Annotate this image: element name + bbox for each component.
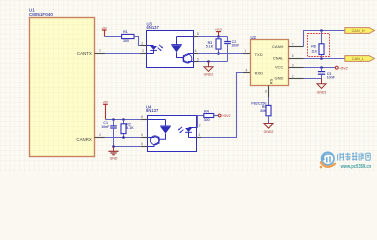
svg-text:3: 3: [292, 63, 294, 67]
U4 internal LED: [185, 128, 196, 138]
dashed termination box: [308, 34, 330, 57]
resistor R4 300: [204, 110, 214, 122]
svg-text:TXD: TXD: [255, 52, 263, 57]
resistor R2 5.1K: [121, 120, 134, 138]
junction GND2 node: [207, 60, 210, 63]
junction R3 bottom: [217, 52, 220, 55]
ground GND (bottom left): [108, 147, 118, 161]
svg-text:8: 8: [197, 32, 199, 36]
resistor R5 30K: [251, 97, 271, 124]
wire +5V to R1: [105, 36, 122, 38]
svg-text:U2: U2: [251, 35, 257, 40]
svg-text:10nF: 10nF: [231, 44, 240, 48]
wire CANH to port: [304, 31, 345, 47]
U3 pin 2: [141, 41, 147, 45]
wire CANTX: [105, 53, 142, 55]
svg-text:6: 6: [141, 133, 143, 137]
watermark logo: [320, 152, 335, 168]
svg-text:GND2: GND2: [204, 72, 214, 76]
svg-text:5.1K: 5.1K: [126, 126, 134, 130]
wire +5V rail to U4 pin8: [106, 119, 142, 121]
U2 pin 4 RXD: [243, 68, 251, 72]
svg-text:2: 2: [292, 74, 294, 78]
junction R2 bottom: [122, 136, 125, 139]
U3 internal LED: [147, 46, 158, 54]
wire U4 pin5 gnd: [114, 146, 142, 148]
svg-text:3: 3: [198, 133, 200, 137]
wire U4 pin2 riser to R4: [198, 116, 204, 128]
svg-text:3: 3: [142, 49, 144, 53]
MCU U1 C8051F040: [29, 8, 95, 157]
svg-text:6N137: 6N137: [147, 25, 160, 30]
U4 pin 2: [197, 123, 201, 127]
resistor R1 300: [122, 30, 134, 43]
U4 internal photodiode: [148, 120, 171, 140]
pin 1 CANTX of U1: [95, 49, 106, 54]
svg-text:RXD: RXD: [255, 71, 264, 76]
resistor R6 110: [311, 31, 324, 59]
U4 pin 5: [141, 142, 148, 146]
svg-text:10nF: 10nF: [101, 125, 110, 129]
U4 internal transistor: [148, 136, 160, 147]
svg-text:300: 300: [123, 39, 129, 43]
ground GND2 (U3): [204, 62, 214, 77]
svg-text:C8051F040: C8051F040: [29, 12, 53, 17]
svg-text:5.1K: 5.1K: [206, 45, 214, 49]
wire VCC to +5V2: [304, 67, 336, 69]
svg-text:2: 2: [141, 41, 143, 45]
capacitor C3 10nF: [318, 68, 336, 80]
svg-text:GND: GND: [110, 157, 118, 161]
U2 pin 2 GND: [289, 74, 304, 78]
wire U3 pin8 to +5V2 rail: [198, 36, 228, 38]
svg-text:GND2: GND2: [317, 90, 327, 94]
junction R3 top: [217, 35, 220, 38]
U2 pin 7 CANH: [289, 42, 304, 46]
svg-text:+5V: +5V: [101, 26, 108, 30]
svg-text:GND2: GND2: [264, 130, 274, 134]
svg-text:1: 1: [99, 49, 101, 53]
svg-text:CANH: CANH: [272, 44, 283, 49]
junction CANL/R6: [320, 57, 323, 60]
U4 pin 8: [141, 115, 148, 119]
capacitor C2 10nF: [224, 37, 240, 62]
svg-text:CAN_L: CAN_L: [352, 57, 364, 61]
svg-text:10nF: 10nF: [327, 76, 336, 80]
svg-text:110: 110: [311, 49, 317, 53]
watermark text 河东软件园: [338, 153, 371, 161]
junction C1 top: [112, 118, 115, 121]
svg-text:RS: RS: [268, 78, 273, 84]
svg-text:CANTX: CANTX: [77, 51, 92, 56]
U2 pin 3 VCC: [289, 63, 304, 67]
junction R2 top: [122, 118, 125, 121]
power +5V (bottom): [103, 100, 110, 119]
U2 pin 6 CANL: [289, 54, 304, 58]
svg-text:+5V2: +5V2: [222, 114, 231, 118]
power +5V2 (circle, VCC): [335, 66, 347, 70]
wire R1 to U3 pin2: [134, 37, 141, 46]
U2 pin 1 TXD: [243, 49, 251, 53]
svg-text:2: 2: [199, 123, 201, 127]
power +5V2 (bar, U3): [215, 27, 223, 36]
svg-text:8: 8: [141, 115, 143, 119]
ground GND2 (R5): [264, 124, 274, 135]
svg-text:CAN_H: CAN_H: [352, 29, 365, 33]
svg-text:R6: R6: [311, 45, 316, 49]
wire GND pin to C3: [304, 78, 322, 80]
svg-text:2: 2: [99, 133, 101, 137]
U4 pin 6: [141, 133, 148, 137]
ground GND2 (C3): [317, 79, 327, 95]
wire CANL to port: [304, 58, 345, 60]
resistor R3 5.1K: [206, 37, 221, 54]
svg-text:CANRX: CANRX: [76, 137, 91, 142]
opto U3 6N137: [147, 21, 194, 67]
U2 pin 8 RS: [265, 86, 268, 98]
U3 internal transistor: [183, 54, 194, 64]
U4 pin 3: [197, 133, 202, 137]
svg-text:GND: GND: [275, 75, 284, 80]
svg-text:5: 5: [197, 57, 199, 61]
svg-text:7: 7: [292, 42, 294, 46]
svg-text:5: 5: [141, 142, 143, 146]
U3 pin 6: [194, 49, 199, 53]
wire RXD riser: [201, 73, 243, 138]
U3 LED emission arrows: [158, 45, 163, 51]
CAN transceiver U2 P82C250: [251, 35, 289, 86]
svg-text:30K: 30K: [260, 109, 267, 113]
U4 LED emission arrows: [178, 127, 183, 133]
power +5V2 (circle, R4): [218, 114, 230, 118]
junction CANH/R6: [320, 29, 323, 32]
svg-text:+5V2: +5V2: [215, 27, 223, 31]
U3 internal photodiode: [171, 37, 193, 58]
junction VCC/C3: [320, 66, 323, 69]
wire R4 to +5V2 circle: [214, 115, 219, 117]
opto U4 6N137: [146, 105, 197, 152]
wire U3 pin5 to GND2: [198, 61, 228, 63]
svg-text:8: 8: [265, 90, 267, 94]
svg-text:6: 6: [195, 49, 197, 53]
svg-text:4: 4: [246, 68, 248, 72]
svg-text:6N137: 6N137: [146, 108, 159, 113]
svg-text:CNAL: CNAL: [273, 55, 284, 60]
svg-text:VCC: VCC: [275, 65, 284, 70]
U3 pin 8: [194, 32, 200, 36]
svg-text:R1: R1: [123, 30, 128, 34]
svg-text:+5V: +5V: [103, 100, 110, 104]
svg-text:+5V2: +5V2: [339, 66, 348, 70]
port CAN_H: [345, 28, 375, 34]
wire U3 pin6 to TXD: [198, 53, 243, 55]
wire CANRX: [105, 137, 142, 139]
port CAN_L: [345, 56, 375, 62]
U3 pin 3: [141, 49, 147, 53]
svg-text:6: 6: [292, 54, 294, 58]
svg-text:1: 1: [244, 49, 246, 53]
capacitor C1 10nF: [101, 120, 117, 147]
junction C1 bottom: [112, 145, 115, 148]
svg-text:www.pc0359.cn: www.pc0359.cn: [340, 164, 372, 170]
power +5V (top): [101, 26, 108, 37]
pin 2 CANRX of U1: [95, 133, 106, 138]
U3 pin 5: [194, 57, 200, 61]
svg-text:R4: R4: [204, 110, 209, 114]
svg-text:300: 300: [204, 118, 210, 122]
